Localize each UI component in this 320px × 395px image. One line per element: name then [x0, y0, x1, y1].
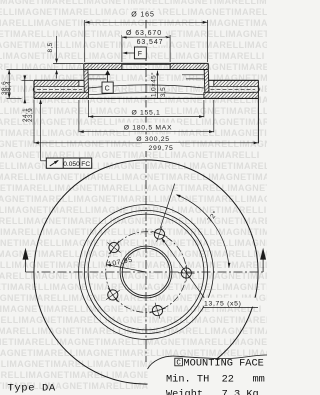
svg-text:MAGNETIMARELLIMAGNETIMARELLIMA: MAGNETIMARELLIMAGNETIMARELLIMAGNETIMAREL…	[0, 51, 265, 61]
bottom plate inner edge left	[87, 92, 89, 98]
hat interior far-side edge line 1 right	[182, 74, 204, 76]
brake band bottom plate left (section hatch)	[34, 92, 88, 98]
hat interior far-side edge line 2 right	[186, 78, 204, 80]
runout leader	[40, 101, 42, 161]
svg-text:MAGNETIMARELLIMAGNETIMARELLIMA: MAGNETIMARELLIMAGNETIMARELLIMAGNETIMAREL…	[0, 172, 267, 182]
circle Ø180,5	[79, 205, 214, 340]
hub flange left (section hatch)	[85, 63, 122, 69]
top plate inner edge left	[78, 80, 80, 86]
outer circle Ø300 (clipped by break line)	[34, 160, 258, 384]
hat interior far-side band junction arc	[88, 85, 203, 88]
datum F leader	[124, 52, 135, 54]
dim 24,1/23,9	[24, 75, 26, 80]
dim 72 degrees	[160, 184, 175, 229]
top plate inner edge right	[213, 80, 215, 86]
svg-text:FC: FC	[81, 161, 90, 168]
mounting face line	[84, 69, 209, 71]
datum C leader triangle	[107, 75, 109, 83]
datum F box	[135, 47, 147, 59]
svg-text:Ø 63,670: Ø 63,670	[126, 30, 162, 37]
bolt hole 3	[109, 242, 119, 252]
svg-text:MAGNETIMARELLIMAGNETIMARELLIMA: MAGNETIMARELLIMAGNETIMARELLIMAGNETIMAREL…	[0, 183, 267, 193]
circle Ø155,1	[88, 214, 204, 330]
bore edge left	[121, 65, 123, 70]
hat wall outline left	[83, 70, 86, 93]
bolt hole 5	[152, 306, 162, 316]
dim Ø180,5 MAX	[78, 100, 80, 132]
svg-text:Ø 180,5 MAX: Ø 180,5 MAX	[124, 124, 173, 131]
hat flange left edge	[83, 63, 85, 69]
runout tolerance frame 0.050 FC	[46, 158, 91, 168]
vent gap top line right	[208, 85, 256, 87]
svg-text:MAGNETIMARELLIMAGNETIMARELLIMA: MAGNETIMARELLIMAGNETIMARELLIMAGNETIMAREL…	[0, 315, 267, 325]
centerline vertical axis	[145, 20, 147, 362]
vent gap bottom line right	[204, 91, 256, 93]
hat interior far-side plate edge arc	[88, 93, 203, 95]
bottom plate inner edge right	[203, 92, 205, 98]
rotation arrow left	[25, 259, 27, 272]
svg-text:MOUNTING FACE: MOUNTING FACE	[184, 357, 264, 369]
vent vanes hidden dashes right	[211, 88, 256, 90]
svg-text:Ø 155,1: Ø 155,1	[131, 109, 160, 116]
hat flange right edge	[207, 63, 209, 69]
hat interior far-side edge line 1 left	[88, 74, 110, 76]
datum C box	[102, 82, 113, 93]
break line wavy + white area	[148, 355, 268, 395]
hub register circle	[120, 246, 172, 298]
circle Ø165	[84, 210, 207, 333]
brake band bottom plate right (section hatch)	[204, 92, 259, 98]
leader 13,75 (x5)	[163, 239, 208, 302]
svg-text:MAGNETIMARELLIMAGNETIMARELLIMA: MAGNETIMARELLIMAGNETIMARELLIMAGNETIMAREL…	[0, 282, 267, 292]
svg-text:MAGNETIMARELLIMAGNETIMARELLIMA: MAGNETIMARELLIMAGNETIMARELLIMAGNETIMAREL…	[0, 0, 267, 6]
svg-text:MAGNETIMARELLIMAGNETIMARELLIMA: MAGNETIMARELLIMAGNETIMARELLIMAGNETIMAREL…	[0, 216, 267, 226]
hub flange right (section hatch)	[170, 63, 207, 69]
bolt hole 2	[154, 229, 164, 239]
bore edge right	[169, 65, 171, 70]
svg-text:1,0×45°: 1,0×45°	[149, 72, 157, 97]
hat top face	[84, 62, 209, 64]
svg-text:MAGNETIMARELLIMAGNETIMARELLIMA: MAGNETIMARELLIMAGNETIMARELLIMAGNETIMAREL…	[0, 205, 267, 215]
svg-text:MAGNETIMARELLIMAGNETIMARELLIMA: MAGNETIMARELLIMAGNETIMARELLIMAGNETIMAREL…	[0, 18, 267, 28]
bore chamfer line	[121, 64, 171, 66]
vent gap rounded end right	[256, 86, 259, 92]
svg-text:3,5: 3,5	[160, 87, 167, 97]
svg-text:Weight 7.3 Kg: Weight 7.3 Kg	[166, 389, 259, 395]
svg-text:C: C	[105, 86, 111, 93]
svg-text:8,5: 8,5	[47, 42, 54, 52]
brake band top plate left (section hatch)	[34, 80, 79, 86]
hat wall outline right	[207, 70, 210, 93]
svg-text:MAGNETIMARELLIMAGNETIMARELLIMA: MAGNETIMARELLIMAGNETIMARELLIMAGNETIMAREL…	[0, 260, 267, 270]
svg-text:38,4: 38,4	[6, 81, 13, 95]
center bore circle Ø63,67	[122, 248, 170, 296]
svg-text:23,9: 23,9	[27, 108, 34, 122]
svg-text:299,75: 299,75	[149, 145, 174, 152]
vent vanes hidden dashes left	[37, 88, 82, 90]
dim 1,0x45 chamfer note	[157, 71, 159, 99]
vent gap top line left	[36, 85, 84, 87]
hat wall left (section hatch)	[84, 70, 89, 93]
svg-text:Ø 165: Ø 165	[131, 12, 155, 19]
svg-text:Min. TH 22 mm: Min. TH 22 mm	[166, 374, 265, 386]
dim 8,5	[56, 36, 58, 59]
bolt circle Ø107,95 centerline	[106, 232, 187, 313]
dim Ø300,25/299,75	[33, 100, 35, 144]
vent gap rounded end left	[33, 86, 36, 92]
bolt hole 1	[181, 268, 191, 278]
band top face left	[34, 79, 84, 81]
disc outer edge left	[33, 80, 35, 98]
svg-text:MAGNETIMARELLIMAGNETIMARELLIMA: MAGNETIMARELLIMAGNETIMARELLIMAGNETIMAREL…	[0, 194, 267, 204]
svg-text:MAGNETIMARELLIMAGNETIMARELLIMA: MAGNETIMARELLIMAGNETIMARELLIMAGNETIMAREL…	[0, 238, 267, 248]
bolt hole 4	[108, 290, 118, 300]
svg-text:MAGNETIMARELLIMAGNETIMARELLIMA: MAGNETIMARELLIMAGNETIMARELLIMAGNETIMAREL…	[0, 326, 267, 336]
svg-text:13,75 (x5): 13,75 (x5)	[204, 301, 242, 308]
svg-text:Ø 300,25: Ø 300,25	[136, 136, 170, 143]
dim Ø155,1	[87, 100, 89, 117]
wire horizontal centerline front view	[26, 271, 264, 273]
svg-text:MAGNETIMARELLIMAGNETIMARELLIMA: MAGNETIMARELLIMAGNETIMARELLIMAGNETIMAREL…	[0, 271, 267, 281]
svg-text:Type DA: Type DA	[8, 383, 56, 395]
band bottom face	[34, 97, 258, 99]
svg-text:F: F	[138, 51, 143, 58]
brake band top plate right (section hatch)	[214, 80, 259, 86]
rotation arrow right	[262, 259, 264, 272]
svg-text:C: C	[176, 359, 181, 367]
svg-text:63,547: 63,547	[137, 39, 164, 46]
hat interior far-side edge line 2 left	[88, 78, 106, 80]
svg-text:MAGNETIMARELLIMAGNETIMARELLIMA: MAGNETIMARELLIMAGNETIMARELLIMAGNETIMAREL…	[0, 161, 267, 171]
vent gap bottom line left	[36, 91, 88, 93]
disc outer edge right + extension to diameter dim	[257, 80, 259, 143]
dim 107,95 PCD leader	[108, 265, 147, 272]
runout symbol arrow	[50, 161, 58, 166]
note C MOUNTING FACE	[175, 358, 183, 366]
svg-text:0.050: 0.050	[63, 161, 80, 168]
dim Ø165	[85, 21, 208, 23]
band top face right	[208, 79, 258, 81]
svg-text:MAGNETIMARELLIMAGNETIMARELLIMA: MAGNETIMARELLIMAGNETIMARELLIMAGNETIMAREL…	[0, 150, 260, 160]
dim 38,6/38,4	[8, 70, 10, 99]
hat wall right (section hatch)	[204, 70, 209, 93]
dim Ø63,670/63,547	[122, 36, 170, 38]
